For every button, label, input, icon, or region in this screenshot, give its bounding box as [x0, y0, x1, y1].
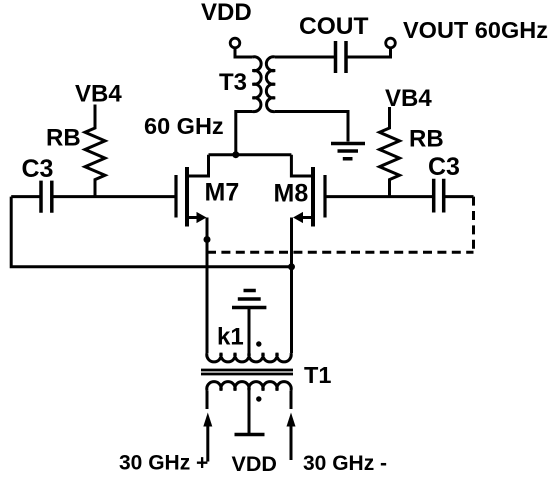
ground (T1 center tap, inverted)	[232, 291, 266, 308]
polarity dot (T1 secondary)	[256, 341, 261, 346]
wire drain rail	[209, 153, 292, 156]
transformer T3 secondary winding	[266, 57, 275, 112]
svg-text:M8: M8	[274, 180, 309, 208]
wire T3 primary bottom to drain node	[236, 112, 253, 155]
wire VDD terminal to T3 primary top	[235, 48, 253, 57]
ground (T3 secondary)	[331, 144, 365, 159]
capacitor C3 (left)	[41, 181, 52, 213]
capacitor C3 (right)	[434, 179, 444, 213]
svg-text:C3: C3	[428, 153, 460, 181]
wire M8 source to T1 right	[290, 218, 293, 354]
svg-text:RB: RB	[409, 126, 444, 153]
polarity dot (T1 primary)	[256, 396, 261, 401]
node M7 source junction	[204, 236, 211, 243]
svg-text:VDD: VDD	[232, 452, 277, 476]
svg-text:M7: M7	[205, 179, 240, 207]
transformer T1 core	[201, 370, 293, 374]
svg-text:COUT: COUT	[299, 13, 368, 40]
wire T3 secondary bottom to ground	[275, 112, 348, 142]
svg-text:VOUT 60GHz: VOUT 60GHz	[403, 17, 548, 43]
svg-text:30 GHz +: 30 GHz +	[119, 452, 208, 475]
wire M7 source to T1 left	[206, 218, 209, 354]
wire T1 primary right terminal	[290, 391, 293, 410]
transformer T1 primary (bottom) winding	[207, 382, 291, 391]
transistor M7	[176, 155, 209, 227]
svg-text:VDD: VDD	[201, 0, 252, 26]
wire feedback (left rail to M8 source)	[11, 197, 291, 267]
svg-text:RB: RB	[46, 125, 81, 152]
wire T1 secondary center tap to ground	[248, 308, 251, 354]
wire M7 gate line	[11, 195, 176, 198]
capacitor COUT	[336, 41, 347, 73]
wire T3 secondary top to COUT	[275, 56, 336, 59]
svg-text:C3: C3	[22, 155, 54, 183]
wire T1 primary left terminal	[206, 391, 209, 410]
svg-text:VB4: VB4	[385, 85, 432, 112]
svg-text:30 GHz -: 30 GHz -	[303, 452, 387, 475]
wire M8 gate line	[325, 195, 474, 198]
arrow 30 GHz +	[203, 413, 212, 462]
svg-text:T3: T3	[219, 69, 247, 96]
svg-text:60 GHz: 60 GHz	[144, 113, 224, 139]
wire COUT to VOUT terminal	[346, 48, 391, 57]
node M8 source junction	[288, 263, 295, 270]
wire dashed cross-coupling	[207, 251, 474, 254]
node drain junction	[232, 151, 239, 158]
VDD tap bar	[235, 433, 265, 437]
terminal VDD	[230, 38, 240, 48]
arrow 30 GHz -	[287, 413, 296, 461]
transistor M8	[291, 155, 325, 227]
terminal VOUT	[386, 38, 396, 48]
svg-text:VB4: VB4	[75, 81, 122, 108]
transformer T3 primary winding	[253, 57, 262, 112]
svg-text:T1: T1	[304, 362, 331, 388]
svg-text:k1: k1	[217, 324, 244, 351]
resistor RB (right)	[380, 107, 400, 197]
transformer T1 secondary (top) winding	[207, 353, 291, 362]
resistor RB (left)	[85, 105, 105, 197]
wire T1 primary center tap to VDD	[248, 391, 251, 434]
